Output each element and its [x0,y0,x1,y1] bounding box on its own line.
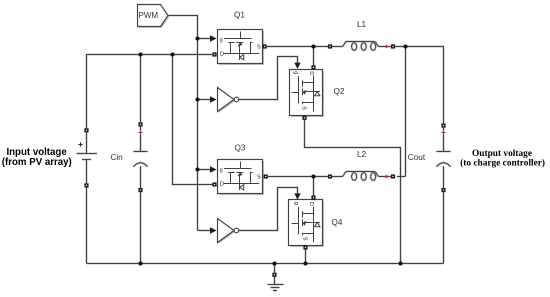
svg-text:Output voltage: Output voltage [472,149,532,159]
svg-text:(to charge controller): (to charge controller) [460,158,545,169]
svg-text:D: D [308,71,314,75]
svg-text:S: S [300,106,306,110]
svg-text:Cout: Cout [408,153,426,162]
svg-text:Cin: Cin [110,153,123,162]
svg-text:g: g [220,167,223,173]
svg-text:L1: L1 [357,20,367,29]
svg-text:D: D [220,181,224,187]
svg-text:D: D [308,202,314,206]
svg-text:g: g [220,37,223,43]
svg-text:Q3: Q3 [235,143,246,152]
svg-text:(from PV array): (from PV array) [2,157,72,168]
svg-text:PWM: PWM [139,11,159,20]
svg-text:Q1: Q1 [234,11,245,20]
svg-text:D: D [220,51,224,57]
svg-text:S: S [301,237,307,241]
svg-text:g: g [293,71,299,74]
svg-text:Q4: Q4 [332,218,343,227]
svg-text:L2: L2 [357,150,367,159]
svg-text:g: g [293,202,299,205]
svg-text:S: S [257,44,261,50]
svg-text:Q2: Q2 [334,87,345,96]
svg-text:S: S [257,174,261,180]
